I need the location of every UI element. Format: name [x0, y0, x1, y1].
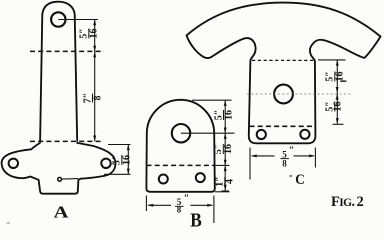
part A lower bend dashed line — [30, 140, 103, 142]
svg-text:16: 16 — [335, 72, 346, 82]
svg-text:8: 8 — [92, 96, 103, 101]
foot tick C bottom — [333, 123, 344, 125]
extension of B bend line — [215, 164, 230, 166]
dimension text 5/8 B — [175, 194, 189, 215]
arrowhead B bend down — [224, 160, 227, 166]
dimension text 5/8 C — [281, 146, 295, 169]
svg-text:16: 16 — [89, 29, 100, 39]
arrowhead C mid up — [336, 94, 339, 100]
part B big hole — [172, 124, 190, 142]
arrowhead down at lower dash — [93, 136, 96, 142]
part A small tab hole — [58, 177, 62, 181]
extension line B bottom edge — [215, 191, 230, 193]
leader from small hole — [62, 178, 78, 181]
arrowhead B hole-center up — [224, 133, 227, 139]
dimension text 1/4 B — [215, 176, 236, 187]
arrowhead plate top — [127, 145, 130, 151]
arrowhead up below upper dash — [93, 51, 96, 57]
svg-text:8: 8 — [282, 159, 287, 169]
extension line B dome top — [192, 99, 232, 101]
dimension line C width — [252, 155, 315, 157]
extension line plate bottom — [104, 173, 131, 175]
tick C hole level — [340, 80, 346, 82]
extension line B width right — [213, 196, 215, 224]
dimension text 5/16 upper B — [213, 110, 234, 121]
dimension text 7/8 A — [82, 93, 103, 104]
svg-text:8: 8 — [177, 204, 182, 214]
dimension text 5/16 upper C — [325, 71, 346, 82]
arrowhead down at upper dash — [93, 46, 96, 52]
extension line B width left — [145, 196, 147, 212]
part B bend dashed line — [147, 164, 216, 166]
svg-text:″: ″ — [184, 194, 190, 205]
part C lower dashed line — [250, 125, 316, 127]
svg-text:16: 16 — [223, 110, 234, 120]
extension line C width right — [314, 148, 316, 168]
dimension line plate 5/16 — [127, 145, 129, 175]
part C curved band and stem outline — [187, 3, 381, 144]
arrowhead C width right — [309, 154, 315, 157]
arrowhead C top up — [336, 60, 339, 66]
dimension text 5/16 lower C — [325, 101, 344, 112]
svg-text:16: 16 — [223, 144, 234, 154]
part C top dashed line — [252, 59, 315, 61]
arrowhead up at lug hole — [93, 20, 96, 26]
arrowhead B width right — [207, 204, 213, 207]
dimension line B vertical — [224, 100, 226, 190]
part A right plate hole — [101, 159, 110, 168]
svg-text:16: 16 — [333, 102, 344, 112]
part B outline — [146, 100, 214, 192]
part C big hole — [274, 85, 293, 104]
extension line C width left — [249, 148, 251, 180]
svg-text:B: B — [190, 210, 202, 229]
part C right bottom hole — [300, 130, 309, 139]
arrowhead B hole-center down — [224, 128, 227, 134]
dimension line A vertical — [94, 20, 96, 142]
part C left bottom hole — [257, 130, 266, 139]
arrowhead B width left — [148, 204, 154, 207]
svg-text:FIG.2: FIG.2 — [331, 194, 364, 210]
arrowhead C mid down — [336, 87, 339, 93]
part B right small hole — [196, 173, 205, 182]
part A left plate hole — [9, 159, 18, 168]
extension line plate top — [108, 144, 131, 146]
part B left small hole — [159, 175, 168, 184]
leader from B hole — [181, 132, 235, 134]
svg-text:C: C — [295, 172, 305, 188]
arrowhead B top up — [224, 100, 227, 106]
dimension text 5/16 upper A — [79, 28, 100, 39]
part C hole centerline — [247, 93, 351, 95]
extension line C top dim — [318, 59, 346, 61]
part A upper bend dashed line — [30, 50, 104, 52]
svg-text:16: 16 — [122, 155, 133, 165]
arrowhead B bend up — [224, 165, 227, 171]
foot tick B bottom — [222, 190, 230, 192]
part A outline — [40, 2, 77, 141]
stray speck bottom left — [7, 222, 11, 223]
arrowhead plate bottom — [127, 169, 130, 175]
leader from lug hole — [58, 19, 98, 21]
svg-text:A: A — [54, 203, 70, 222]
dimension line C vertical — [336, 60, 338, 124]
arrowhead B bottom down — [224, 185, 227, 191]
dimension line B width — [148, 204, 213, 206]
part A base plate outline — [2, 143, 116, 194]
svg-text:″: ″ — [289, 146, 295, 157]
dimension text 5/16 plate A — [112, 155, 133, 166]
svg-text:4: 4 — [225, 179, 236, 184]
tick left of label C — [290, 175, 293, 177]
part A lug hole — [51, 12, 65, 26]
dimension text 5/16 lower B — [213, 144, 234, 155]
arrowhead C width left — [251, 154, 257, 157]
arrowhead C bottom down — [336, 118, 339, 124]
